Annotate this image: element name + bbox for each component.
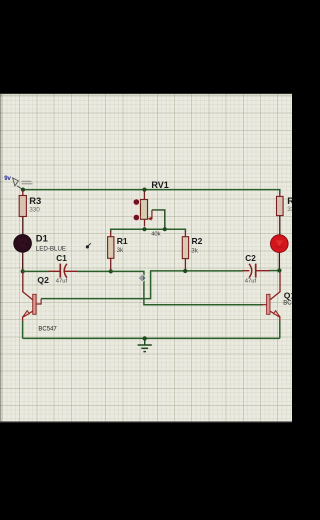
svg-text:3k: 3k [117, 247, 124, 254]
svg-text:330: 330 [29, 206, 40, 213]
svg-text:R4: R4 [287, 195, 292, 206]
svg-text:C2: C2 [245, 254, 256, 263]
wire C2 to D2 junction [269, 270, 280, 272]
wire bottom emitter rail [23, 337, 280, 339]
svg-text:RV1: RV1 [151, 180, 168, 190]
capacitor C1 47uf [49, 254, 78, 285]
node pot bottom junction [142, 227, 146, 231]
node D2 bottom junction [277, 268, 281, 272]
node RV1 top junction [142, 188, 146, 192]
wire C1 to R1 junction [77, 270, 111, 272]
resistor R4 330 (clipped at right edge) [277, 193, 301, 236]
transistor Q2 BC547 [23, 273, 58, 339]
LED D2 (red, lit) [271, 235, 289, 269]
node wiper junction [163, 227, 167, 231]
wire Q2 base to row A right (steps up) [41, 271, 243, 299]
wire pot bottom rail (R1 top to R2 top) [111, 229, 186, 231]
battery 9v power flag [4, 176, 32, 189]
resistor R1 3k [108, 231, 128, 270]
pencil cursor mark [86, 243, 91, 248]
potentiometer RV1 40k [133, 180, 169, 237]
svg-text:R2: R2 [192, 236, 203, 246]
node ground junction [143, 336, 147, 340]
resistor R2 3k [182, 231, 202, 269]
svg-text:40k: 40k [151, 232, 160, 238]
node R2 bottom junction [183, 269, 187, 273]
svg-text:BC547: BC547 [38, 326, 57, 332]
svg-text:C1: C1 [56, 254, 67, 263]
node D1 bottom junction [21, 269, 25, 273]
svg-text:R3: R3 [29, 195, 41, 206]
svg-text:47uf: 47uf [56, 279, 68, 285]
svg-text:R1: R1 [117, 236, 128, 246]
svg-text:330: 330 [287, 206, 292, 213]
wire row A to Q1 base (steps down) [111, 271, 263, 304]
capacitor C2 47uf [243, 254, 271, 285]
svg-text:Q1: Q1 [284, 290, 292, 300]
node top-left junction [21, 188, 25, 192]
svg-text:9v: 9v [4, 176, 11, 182]
LED D1 (blue, off) [14, 233, 66, 270]
svg-text:3k: 3k [191, 247, 198, 254]
node R1 bottom junction [109, 269, 113, 273]
ground [138, 338, 152, 351]
resistor R3 [19, 191, 41, 235]
svg-text:47uf: 47uf [245, 279, 257, 285]
svg-text:Q2: Q2 [37, 275, 49, 285]
svg-text:LED-BLUE: LED-BLUE [36, 246, 66, 253]
wire row A left (D1 to C1) [23, 270, 49, 272]
move cursor icon [138, 274, 146, 282]
svg-text:D1: D1 [36, 233, 48, 244]
transistor Q1 BC547 (clipped labels) [262, 273, 302, 339]
wire top power rail [23, 190, 280, 194]
svg-text:BC547: BC547 [283, 300, 292, 306]
